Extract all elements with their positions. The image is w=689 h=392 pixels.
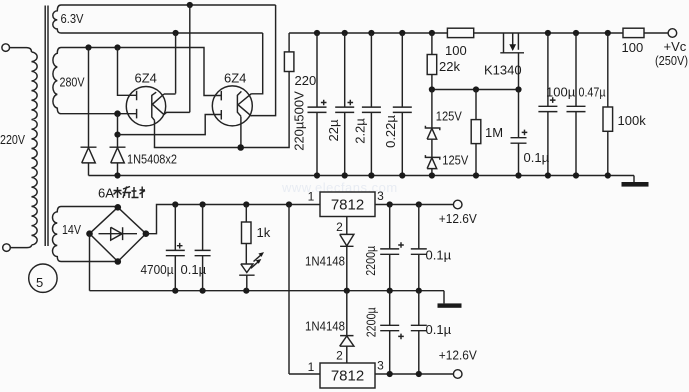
capacitor C7 0.47u: [567, 33, 586, 176]
wire zener node row: [432, 89, 519, 91]
terminal +Vc: [668, 29, 677, 38]
wire V1 upper diagonal exit: [164, 93, 176, 95]
svg-text:+Vc: +Vc: [664, 39, 687, 54]
wire heater top rail: [70, 4, 276, 6]
diode D3 1N4148: [340, 217, 354, 291]
svg-text:220V: 220V: [0, 132, 25, 147]
resistor R220: [284, 33, 294, 72]
bridge inner diode: [99, 227, 138, 240]
node junction top rail: [187, 2, 193, 8]
wire mid ground rail: [90, 290, 445, 292]
svg-text:280V: 280V: [60, 75, 85, 90]
tube V1 cathode: [152, 92, 156, 120]
wire 14V top lead to bridge: [70, 206, 118, 209]
wire 14V bottom lead to bridge: [70, 261, 118, 263]
capacitor C11 0.1u: [411, 291, 427, 374]
node junctions on ground rail: [114, 172, 611, 178]
svg-text:1M: 1M: [485, 125, 503, 140]
wire node to zener DZ1: [431, 90, 433, 129]
mosfet Q1 K1340 channel bars: [513, 33, 519, 50]
svg-text:100: 100: [622, 40, 644, 55]
svg-text:7812: 7812: [331, 197, 364, 214]
capacitor C3 2.2u: [362, 33, 381, 176]
node junction 280V rail right: [114, 44, 120, 50]
node junction below 22k: [429, 86, 435, 92]
svg-text:14V: 14V: [62, 222, 81, 237]
svg-text:220: 220: [295, 73, 317, 88]
wire B+ rail middle segment: [474, 32, 623, 34]
wire cathode output bus: [154, 72, 289, 148]
svg-text:0.47µ: 0.47µ: [579, 85, 606, 100]
svg-text:1k: 1k: [257, 225, 271, 240]
diode D1 1N5408: [81, 147, 97, 175]
svg-text:125V: 125V: [442, 153, 468, 168]
capacitor C2 22u: [335, 33, 354, 176]
wire HV ground rail: [89, 175, 635, 177]
svg-text:3: 3: [377, 359, 384, 373]
node junctions mid rail: [172, 288, 422, 294]
wire from 6.3V rail down to tube V2 top diagonal: [252, 33, 263, 94]
svg-text:2: 2: [336, 220, 343, 234]
svg-text:220µ500V: 220µ500V: [292, 91, 307, 151]
capacitor C1 220u500V: [308, 33, 327, 176]
svg-text:6Z4: 6Z4: [135, 71, 157, 86]
svg-text:22k: 22k: [439, 59, 460, 74]
capacitor C13 0.1u: [195, 205, 211, 291]
capacitor C8 2200u: [380, 205, 404, 291]
wire between zeners: [431, 139, 433, 157]
svg-text:1N5408x2: 1N5408x2: [127, 152, 177, 167]
wire from top rail down to tube V2 cathode side: [252, 5, 276, 116]
mosfet Q1 K1340 gate bar: [500, 52, 524, 54]
tube V1 6Z4 envelope: [126, 87, 165, 126]
node junction above 1M: [473, 86, 479, 92]
wire from top terminal to primary: [10, 48, 32, 52]
wire rail to +Vc terminal: [644, 32, 668, 34]
terminal AC input bottom: [3, 244, 11, 252]
wire U2 output: [375, 373, 453, 375]
node junctions LV positive rail: [172, 201, 292, 207]
transformer winding 6.3V: [53, 5, 70, 33]
zener DZ1 125V: [425, 126, 439, 140]
capacitor C9 0.1u: [411, 205, 427, 291]
wire 6.3V bottom rail: [70, 32, 263, 34]
resistor R100b in rail: [623, 28, 644, 37]
zener DZ2 125V: [425, 155, 439, 169]
svg-text:6A: 6A: [98, 186, 114, 201]
wire bridge left corner to LV ground rail: [89, 234, 91, 291]
svg-text:2200µ: 2200µ: [363, 245, 378, 275]
resistor R1M: [471, 90, 481, 176]
transformer winding 280V: [53, 48, 70, 114]
svg-text:(250V): (250V): [655, 53, 688, 68]
regulator U1 7812: [320, 192, 375, 217]
svg-text:1N4148: 1N4148: [305, 254, 345, 269]
svg-text:0.1µ: 0.1µ: [426, 248, 452, 263]
node junction gate node: [515, 86, 521, 92]
svg-text:3: 3: [377, 189, 384, 203]
node junctions on B+ rail: [314, 30, 611, 36]
tube V2 plate pin bars: [220, 91, 222, 120]
transformer winding 14V: [52, 207, 70, 262]
mosfet Q1 K1340 arrow: [509, 44, 516, 51]
diode D4 1N4148: [340, 291, 354, 363]
svg-text:2200µ: 2200µ: [363, 307, 378, 337]
label dui character: [132, 187, 146, 199]
resistor R22k: [427, 33, 437, 90]
wire 280V winding bottom to tube V1 lower plate pin: [70, 113, 137, 115]
wire heater drop to V1 from top rail: [189, 5, 191, 112]
svg-text:0.1µ: 0.1µ: [181, 262, 207, 277]
svg-text:4700µ: 4700µ: [141, 262, 174, 277]
wire bridge right corner to LV positive rail: [146, 205, 320, 234]
svg-text:7812: 7812: [331, 368, 364, 385]
symbol circled 5: [29, 264, 57, 292]
ground HV: [622, 176, 649, 187]
node junction tap to V2: [114, 132, 120, 138]
bridge rectifier BR1 diamond: [90, 207, 146, 261]
wire 280V rail down then to tube V1 upper plate pin: [118, 48, 137, 96]
wire from primary to bottom terminal: [10, 245, 31, 248]
tube V1 cathode bottom lead: [154, 120, 156, 147]
wire 280V top rail: [70, 48, 221, 96]
svg-text:0.22µ: 0.22µ: [383, 115, 398, 148]
transformer core: [44, 6, 46, 247]
resistor R100a in rail: [447, 28, 473, 37]
wire node down to diode D2: [117, 114, 119, 148]
regulator U2 7812: [320, 363, 375, 388]
node junctions U2 output: [387, 371, 393, 377]
svg-text:2.2µ: 2.2µ: [353, 118, 368, 144]
svg-text:+12.6V: +12.6V: [439, 348, 477, 363]
terminal +12.6V bottom: [453, 370, 462, 379]
mosfet Q1 K1340 gate lead to node: [518, 53, 520, 90]
capacitor C10 2200u: [380, 291, 404, 374]
svg-text:100k: 100k: [618, 113, 647, 128]
svg-text:+12.6V: +12.6V: [439, 211, 477, 226]
tube V2 cathode bottom lead: [240, 117, 242, 148]
tube V2 cathode: [237, 91, 241, 116]
wire to tube V2 lower plate pin: [118, 115, 222, 135]
tube V1 plate pin bars: [136, 91, 138, 119]
tube V1 diagonals: [152, 94, 164, 115]
svg-text:100µ: 100µ: [546, 85, 576, 100]
svg-text:2: 2: [336, 349, 343, 363]
svg-text:6.3V: 6.3V: [61, 11, 84, 26]
label qiao character: [114, 187, 132, 199]
svg-text:125V: 125V: [436, 109, 462, 124]
capacitor C4 0.22u: [393, 33, 412, 176]
terminal +12.6V top: [453, 200, 462, 209]
wire U1 output: [375, 204, 453, 206]
diode D2 1N5408: [110, 147, 126, 175]
led LED1: [239, 252, 264, 291]
wire heater drop to V1 from 6.3V rail: [175, 33, 177, 94]
capacitor C12 4700u: [166, 205, 185, 291]
bridge corner junctions: [86, 204, 149, 265]
svg-text:100: 100: [445, 43, 467, 58]
svg-text:22µ: 22µ: [326, 119, 341, 141]
capacitor C6 100u: [538, 33, 557, 176]
node junction 6.3V rail: [173, 30, 179, 36]
node junction cathode bus: [237, 144, 244, 151]
wire input branch to U1 and U2: [289, 205, 320, 375]
svg-text:1: 1: [308, 190, 315, 204]
svg-text:0.1µ: 0.1µ: [524, 150, 550, 165]
svg-text:5: 5: [36, 275, 43, 290]
mosfet Q1 K1340 gate drop: [503, 33, 505, 53]
node junction 280V rail left: [85, 44, 91, 50]
svg-text:1: 1: [308, 360, 315, 374]
resistor R100k: [603, 33, 613, 176]
wire B+ rail left segment: [289, 32, 447, 34]
tube V2 diagonals: [238, 94, 252, 117]
wire 280V rail to diode D1: [88, 48, 90, 148]
node junction winding bottom: [114, 110, 121, 117]
node junctions U1 output: [387, 201, 393, 207]
capacitor C5 0.1u: [511, 90, 528, 176]
svg-text:K1340: K1340: [484, 63, 522, 78]
resistor R1k: [242, 205, 252, 265]
svg-text:6Z4: 6Z4: [224, 71, 246, 86]
wire V1 lower diagonal exit: [164, 112, 190, 114]
ground LV: [438, 291, 462, 308]
svg-text:0.1µ: 0.1µ: [426, 322, 452, 337]
svg-text:1N4148: 1N4148: [305, 319, 345, 334]
terminal AC input top: [2, 44, 10, 52]
tube V2 6Z4 envelope: [212, 86, 252, 126]
transformer T1 primary winding 220V: [32, 52, 38, 245]
wire zener to ground rail: [431, 169, 433, 176]
